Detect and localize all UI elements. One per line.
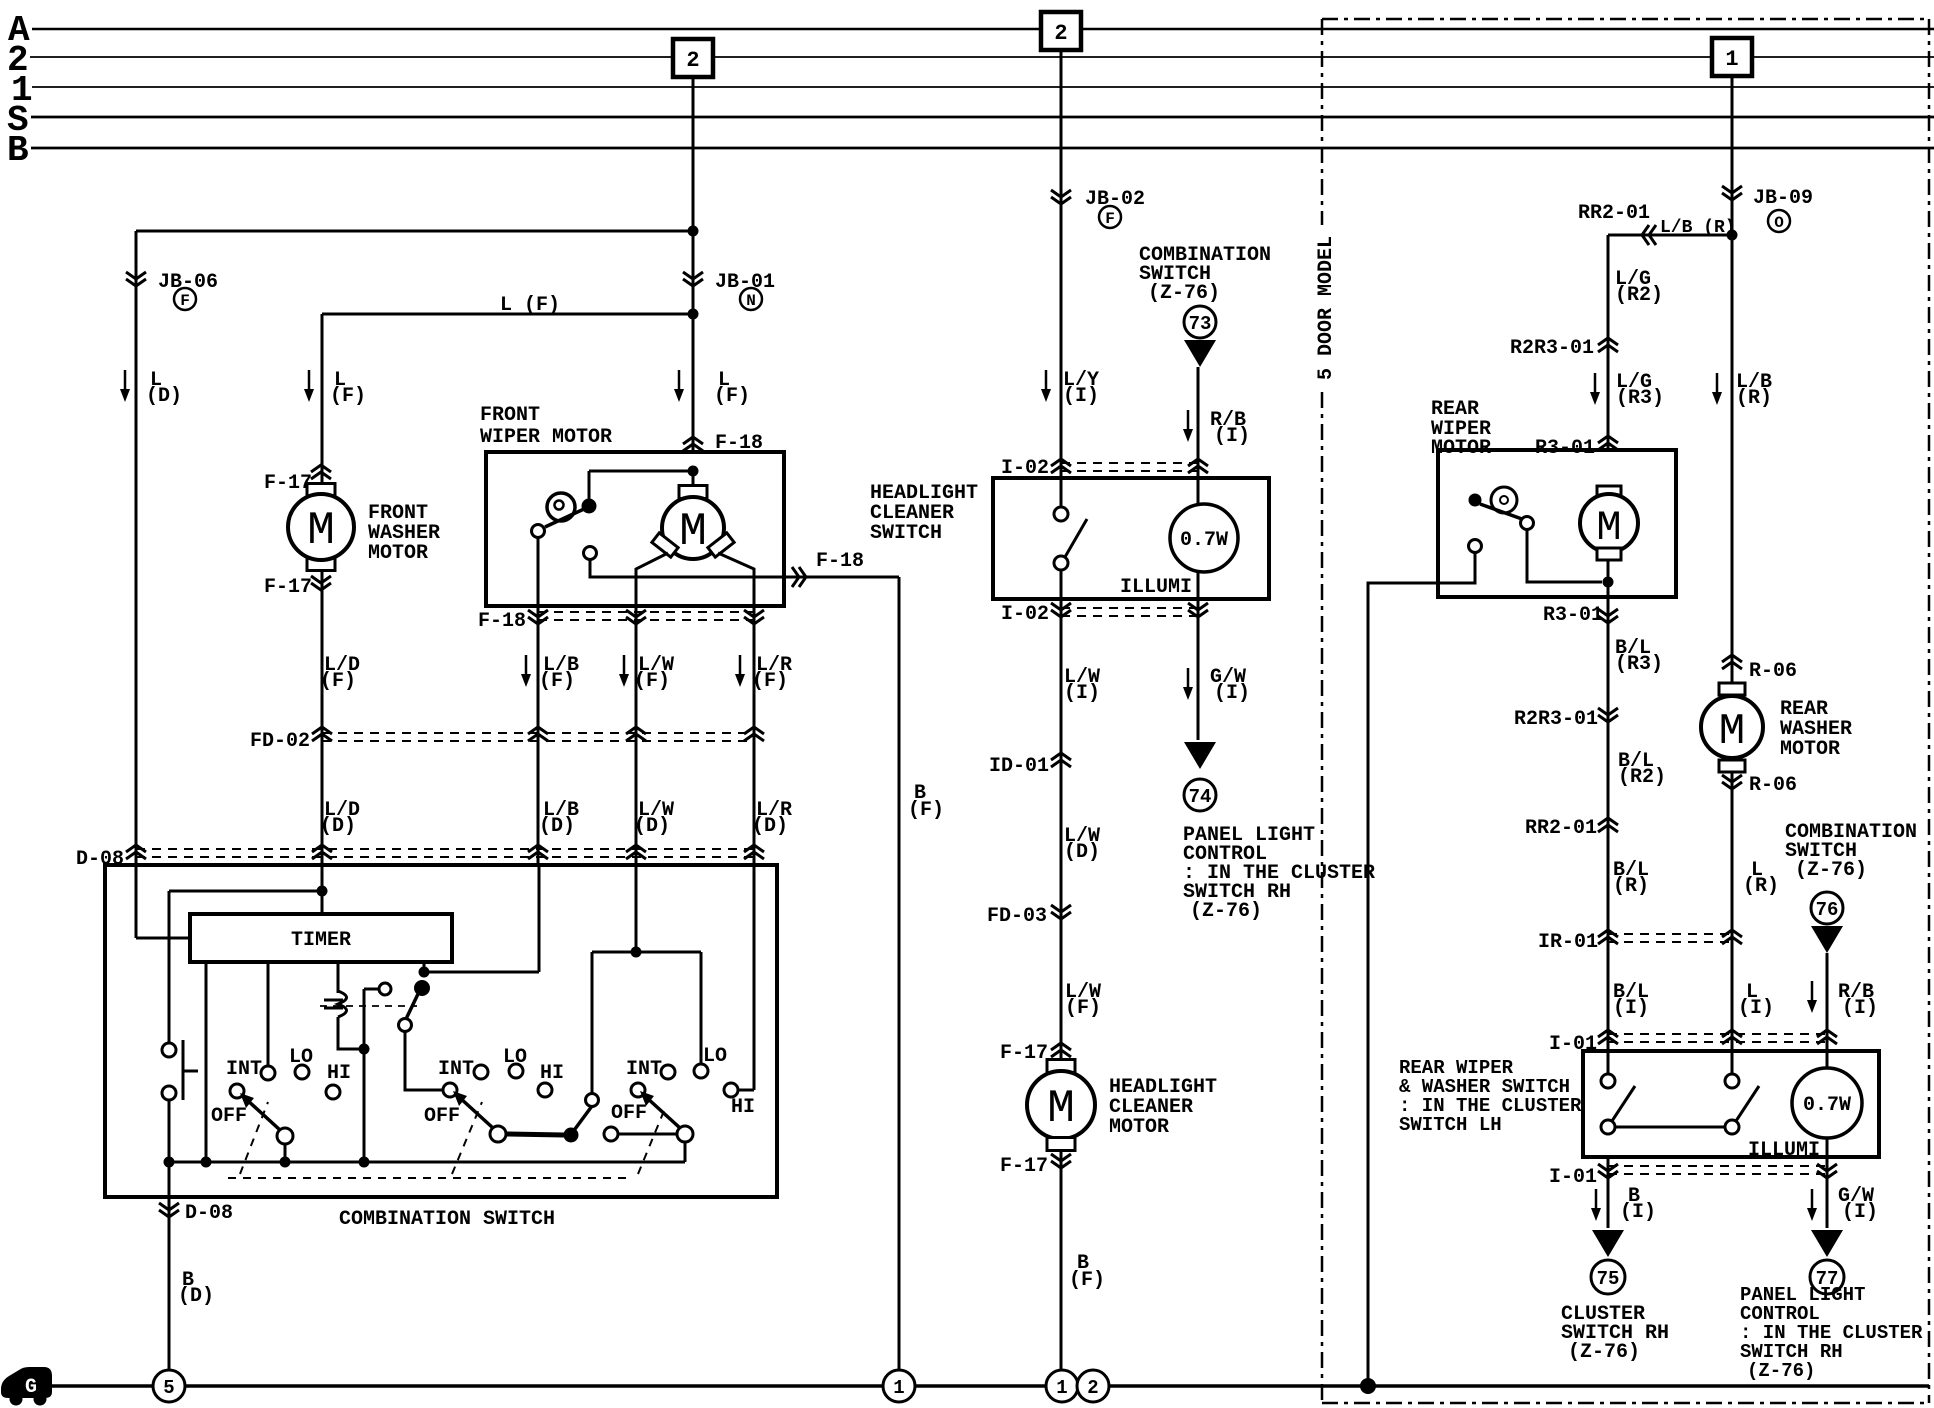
svg-text:OFF: OFF: [611, 1102, 647, 1125]
svg-text:(I): (I): [1842, 1201, 1878, 1224]
svg-text:MOTOR: MOTOR: [1780, 738, 1840, 761]
svg-text:F-17: F-17: [264, 472, 312, 495]
svg-text:(Z-76): (Z-76): [1795, 859, 1867, 882]
svg-text:F: F: [1105, 210, 1115, 228]
svg-text:L (F): L (F): [500, 294, 560, 317]
svg-text:R-06: R-06: [1749, 660, 1797, 683]
svg-text:JB-09: JB-09: [1753, 187, 1813, 210]
svg-text:(I): (I): [1214, 682, 1250, 705]
svg-text:(Z-76): (Z-76): [1190, 900, 1262, 923]
svg-text:0.7W: 0.7W: [1180, 529, 1228, 552]
svg-text:76: 76: [1816, 899, 1839, 921]
svg-text:WIPER MOTOR: WIPER MOTOR: [480, 426, 612, 449]
svg-text:5: 5: [163, 1377, 174, 1399]
svg-text:M: M: [679, 506, 707, 558]
svg-text:(F): (F): [1069, 1269, 1105, 1292]
svg-text:(R2): (R2): [1615, 284, 1663, 307]
svg-text:F-18: F-18: [478, 610, 526, 633]
svg-text:F-17: F-17: [1000, 1042, 1048, 1065]
svg-text:(D): (D): [752, 815, 788, 838]
svg-text:G: G: [25, 1376, 37, 1399]
svg-text:SWITCH LH: SWITCH LH: [1399, 1114, 1502, 1136]
svg-text:LO: LO: [703, 1045, 727, 1068]
svg-text:(R): (R): [1613, 875, 1649, 898]
svg-text:FD-03: FD-03: [987, 905, 1047, 928]
svg-text:2: 2: [686, 48, 699, 73]
svg-text:(D): (D): [634, 815, 670, 838]
svg-text:1: 1: [893, 1377, 904, 1399]
svg-text:(D): (D): [1064, 841, 1100, 864]
svg-text:(F): (F): [1065, 997, 1101, 1020]
svg-text:INT: INT: [226, 1058, 262, 1081]
svg-text:MOTOR: MOTOR: [368, 542, 428, 565]
svg-text:73: 73: [1189, 313, 1212, 335]
svg-text:SWITCH: SWITCH: [870, 522, 942, 545]
svg-text:M: M: [1047, 1083, 1075, 1135]
svg-text:1: 1: [1056, 1377, 1067, 1399]
svg-text:(I): (I): [1620, 1201, 1656, 1224]
svg-text:(F): (F): [634, 670, 670, 693]
svg-text:OFF: OFF: [211, 1105, 247, 1128]
svg-text:IR-01: IR-01: [1538, 931, 1598, 954]
svg-text:2: 2: [1087, 1377, 1098, 1399]
svg-text:(F): (F): [320, 670, 356, 693]
svg-text:(I): (I): [1613, 997, 1649, 1020]
svg-text:(R): (R): [1736, 387, 1772, 410]
svg-text:(R2): (R2): [1618, 766, 1666, 789]
svg-text:OFF: OFF: [424, 1105, 460, 1128]
svg-text:2: 2: [1054, 21, 1067, 46]
svg-text:F-17: F-17: [264, 576, 312, 599]
svg-text:(Z-76): (Z-76): [1148, 282, 1220, 305]
svg-text:(F): (F): [908, 799, 944, 822]
svg-text:RR2-01: RR2-01: [1578, 202, 1650, 225]
svg-text:R2R3-01: R2R3-01: [1514, 708, 1598, 731]
svg-text:R3-01: R3-01: [1543, 604, 1603, 627]
svg-text:D-08: D-08: [185, 1202, 233, 1225]
svg-text:(I): (I): [1214, 425, 1250, 448]
svg-text:MOTOR: MOTOR: [1109, 1116, 1169, 1139]
svg-text:M: M: [1596, 504, 1621, 552]
svg-text:74: 74: [1189, 786, 1212, 808]
svg-text:FD-02: FD-02: [250, 730, 310, 753]
svg-text:(I): (I): [1063, 385, 1099, 408]
svg-text:I-02: I-02: [1001, 603, 1049, 626]
svg-text:M: M: [1719, 707, 1745, 757]
svg-text:(F): (F): [330, 385, 366, 408]
svg-text:(I): (I): [1842, 997, 1878, 1020]
svg-text:(F): (F): [539, 670, 575, 693]
svg-text:ILLUMI: ILLUMI: [1120, 576, 1192, 599]
svg-text:0.7W: 0.7W: [1803, 1094, 1851, 1117]
svg-text:F: F: [180, 292, 190, 310]
svg-text:(R): (R): [1743, 875, 1779, 898]
svg-text:(D): (D): [178, 1285, 214, 1308]
svg-text:COMBINATION SWITCH: COMBINATION SWITCH: [339, 1208, 555, 1231]
svg-text:(R3): (R3): [1616, 387, 1664, 410]
svg-text:(F): (F): [752, 670, 788, 693]
svg-text:D-08: D-08: [76, 848, 124, 871]
svg-text:TIMER: TIMER: [291, 929, 351, 952]
svg-text:(I): (I): [1738, 997, 1774, 1020]
svg-text:75: 75: [1597, 1268, 1620, 1290]
svg-text:INT: INT: [438, 1058, 474, 1081]
svg-text:1: 1: [1725, 47, 1738, 72]
svg-text:(R3): (R3): [1615, 653, 1663, 676]
svg-text:INT: INT: [626, 1058, 662, 1081]
svg-text:HI: HI: [731, 1096, 755, 1119]
svg-text:N: N: [746, 292, 756, 310]
svg-text:RR2-01: RR2-01: [1525, 817, 1597, 840]
svg-text:F-17: F-17: [1000, 1155, 1048, 1178]
svg-text:(F): (F): [714, 385, 750, 408]
svg-text:HI: HI: [540, 1062, 564, 1085]
svg-text:(D): (D): [146, 385, 182, 408]
svg-text:FRONT: FRONT: [480, 404, 540, 427]
svg-text:F-18: F-18: [816, 550, 864, 573]
svg-text:M: M: [307, 505, 335, 557]
svg-text:(Z-76): (Z-76): [1747, 1360, 1815, 1382]
svg-text:B: B: [7, 130, 29, 171]
svg-text:R-06: R-06: [1749, 774, 1797, 797]
svg-text:I-01: I-01: [1549, 1166, 1597, 1189]
svg-text:ILLUMI: ILLUMI: [1748, 1139, 1820, 1162]
svg-text:HI: HI: [327, 1062, 351, 1085]
svg-text:(I): (I): [1064, 682, 1100, 705]
svg-text:(D): (D): [320, 815, 356, 838]
svg-text:L/B (R): L/B (R): [1660, 218, 1736, 238]
svg-text:(Z-76): (Z-76): [1568, 1341, 1640, 1364]
svg-text:5 DOOR MODEL: 5 DOOR MODEL: [1315, 236, 1338, 380]
svg-text:O: O: [1774, 214, 1784, 232]
svg-text:R2R3-01: R2R3-01: [1510, 337, 1594, 360]
svg-text:(D): (D): [539, 815, 575, 838]
svg-text:ID-01: ID-01: [989, 755, 1049, 778]
